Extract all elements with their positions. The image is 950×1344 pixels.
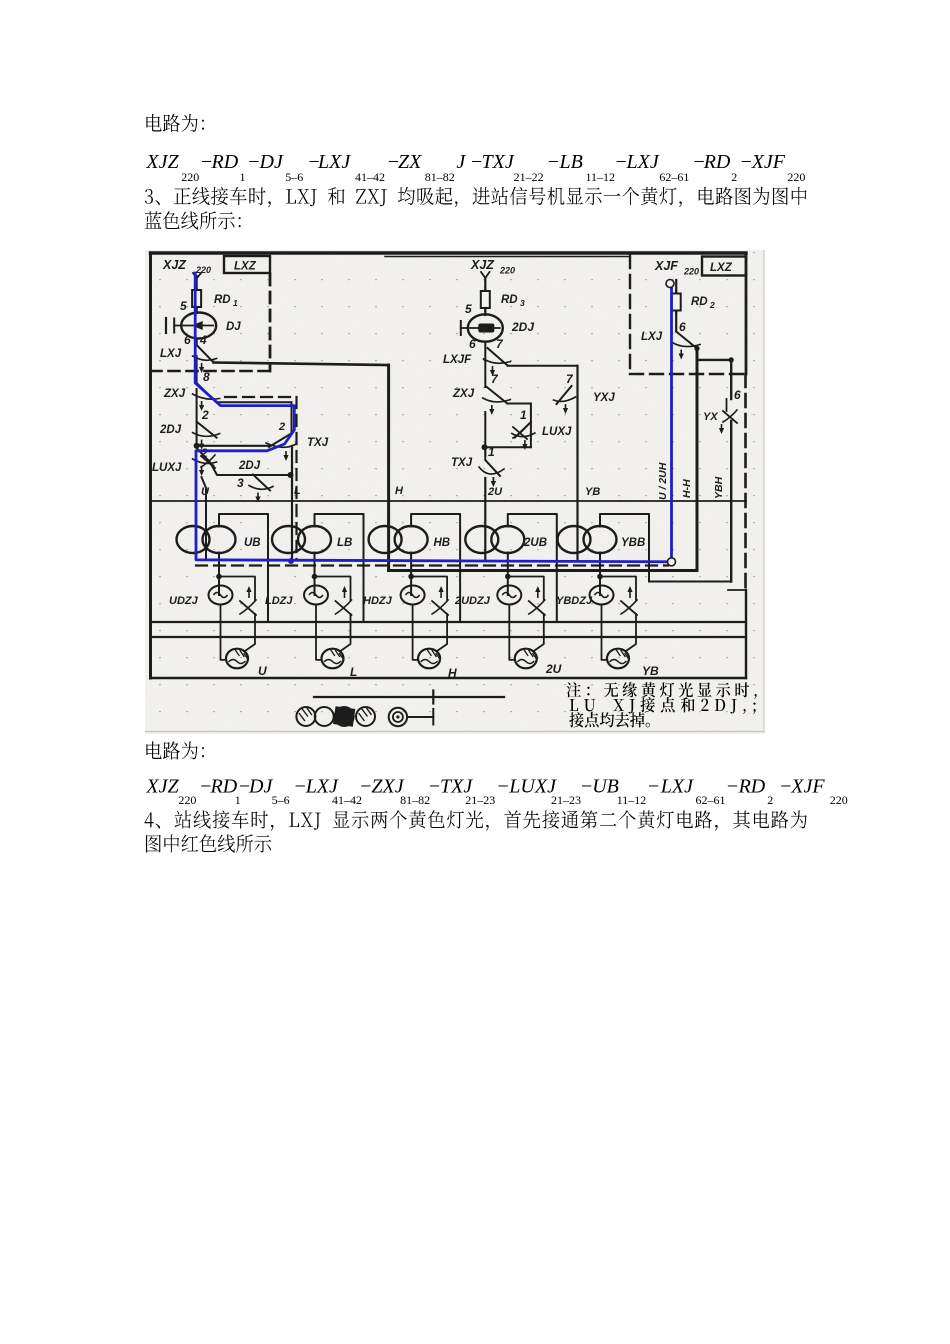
contact LDZJ (cross) [336, 601, 352, 615]
svg-text:YXJ: YXJ [593, 392, 615, 404]
svg-text:5: 5 [180, 299, 187, 313]
signal head lamps [296, 707, 315, 726]
svg-text:XJZ: XJZ [162, 258, 187, 272]
junction dot H [408, 574, 414, 580]
svg-text:2UDZJ: 2UDZJ [454, 595, 491, 607]
outer border right (solid bottom) [745, 590, 747, 678]
wire contact to lamp YB [626, 614, 636, 651]
wire HH vertical [696, 349, 699, 571]
svg-text:220: 220 [181, 170, 199, 184]
svg-text:RD: RD [211, 151, 239, 173]
body paragraph line 3 [145, 189, 153, 204]
wire DJ to LXJ [196, 339, 198, 345]
relay coil HDZJ [401, 586, 425, 605]
wire LXJF out [508, 365, 578, 367]
transformer HB [369, 526, 402, 553]
svg-text:62–61: 62–61 [696, 793, 726, 807]
svg-text:XJF: XJF [790, 776, 825, 798]
svg-text:−: − [647, 776, 661, 798]
svg-text:2U: 2U [545, 662, 562, 676]
wire LUXJ out to L junction [211, 464, 291, 475]
svg-text:1: 1 [233, 298, 238, 308]
wire coil to lamp H [413, 605, 419, 660]
wire secondary top bracket H [411, 514, 460, 622]
svg-text:5–6: 5–6 [272, 793, 290, 807]
svg-text:81–82: 81–82 [400, 793, 430, 807]
junction node mid [482, 444, 488, 450]
wire ZXJ mid out [507, 403, 531, 405]
svg-text:YBDZJ: YBDZJ [556, 595, 593, 607]
svg-text:220: 220 [830, 793, 848, 807]
wire secondary top bracket U [219, 514, 268, 622]
wire fuse to DJ [196, 307, 198, 313]
relay coil UDZJ [209, 586, 233, 605]
svg-text:81–82: 81–82 [425, 170, 455, 184]
outer border top [151, 251, 747, 254]
contact YXJ (right): stub, cross, arrow [726, 399, 728, 411]
svg-text:220: 220 [195, 265, 211, 275]
wire XJZ down to fuse [196, 276, 198, 292]
note line 2 [570, 699, 578, 711]
wire contact to lamp 2U [534, 614, 544, 651]
wire mid vertical through [484, 412, 486, 456]
body wrap line 2 [146, 835, 161, 853]
dashed box top-right left edge [629, 255, 631, 374]
svg-text:H: H [448, 666, 457, 680]
note line 1 [566, 682, 580, 697]
svg-text:21–23: 21–23 [551, 793, 581, 807]
wire LXJ to H column [214, 363, 389, 366]
tick mark left of DJ [165, 318, 167, 333]
svg-text:ZXJ: ZXJ [452, 388, 475, 400]
svg-text:HDZJ: HDZJ [363, 595, 393, 607]
wire down LUXJ branch [530, 404, 532, 448]
svg-text:LXJ: LXJ [626, 151, 660, 173]
svg-text:6: 6 [184, 333, 191, 347]
svg-text:UB: UB [592, 776, 619, 798]
wire secondary bottom L [314, 553, 316, 596]
wire contact to lamp L [341, 614, 351, 651]
svg-text:6: 6 [469, 337, 476, 351]
svg-text:8: 8 [203, 370, 210, 384]
dashed box top-left bottom edge [151, 370, 271, 373]
blue junction dot at L [288, 558, 294, 564]
wire XJF down to fuse [675, 280, 677, 295]
svg-text:TXJ: TXJ [307, 437, 329, 449]
contact 2DJ-3 on U-L wire [253, 475, 270, 491]
svg-text:LXJ: LXJ [160, 348, 182, 360]
wire to contact H [411, 577, 447, 601]
svg-text:RD: RD [501, 294, 518, 306]
wire XJZ mid down [484, 278, 486, 293]
contact LXJ (right) [676, 332, 697, 349]
svg-text:21–23: 21–23 [465, 793, 495, 807]
svg-text:2: 2 [278, 421, 285, 433]
wire fuse to 2DJ [484, 308, 486, 315]
svg-text:XJZ: XJZ [470, 258, 495, 272]
svg-text:21–22: 21–22 [514, 170, 544, 184]
contact 2DJ (left) [197, 422, 217, 438]
contact LXJF [488, 348, 508, 366]
svg-text:XJF: XJF [751, 151, 786, 173]
signal mast line [314, 696, 504, 698]
svg-text:XJZ: XJZ [145, 151, 179, 173]
wire secondary top bracket L [315, 514, 364, 622]
svg-text:41–42: 41–42 [332, 793, 362, 807]
dashed box TXJ right edge [295, 397, 297, 560]
transformer LB [272, 526, 305, 553]
wire contact to lamp U [245, 614, 255, 651]
page text 2: 电路为: [146, 741, 161, 759]
svg-text:−: − [580, 776, 594, 798]
relay coil 2UDZJ [497, 586, 521, 605]
wire below LXJ to ZXJ [196, 356, 198, 383]
svg-text:4: 4 [199, 333, 207, 347]
relay coil LDZJ [304, 586, 328, 605]
terminal circle blue bottom [668, 558, 676, 566]
svg-text:TXJ: TXJ [482, 151, 515, 173]
relay 2DJ [468, 314, 503, 341]
svg-text:11–12: 11–12 [617, 793, 647, 807]
svg-text:2DJ: 2DJ [238, 460, 261, 472]
svg-text:2: 2 [709, 300, 715, 310]
svg-text:LXJ: LXJ [641, 331, 663, 343]
junction dot 2U [505, 574, 511, 580]
connector right step [728, 589, 746, 591]
svg-text:2U: 2U [487, 486, 503, 498]
formula line 2 [145, 776, 847, 808]
wire junction horizontal [197, 445, 270, 447]
wire coil to lamp L [316, 605, 322, 660]
scanned figure background [145, 250, 765, 734]
dashed long bottom edge [196, 564, 668, 566]
svg-text:11–12: 11–12 [586, 170, 616, 184]
transformer box top [151, 500, 747, 502]
contact 2UDZJ (cross) [529, 601, 545, 615]
contact YXJ (middle, down-left) [557, 386, 572, 404]
wire LUXJ mid bottom [485, 446, 531, 448]
wire YBH vertical upper [730, 360, 732, 399]
svg-text:ZXJ: ZXJ [163, 388, 186, 400]
relay coil YBDZJ [590, 586, 614, 605]
lamp YB [607, 649, 629, 669]
svg-text:2UB: 2UB [523, 537, 547, 549]
transformer box bottom [151, 621, 747, 623]
svg-text:5: 5 [465, 302, 472, 316]
wire secondary top bracket YB [600, 514, 649, 582]
lamp box bottom [151, 677, 747, 679]
wire secondary bottom 2U [507, 553, 509, 596]
wire L column [291, 446, 293, 560]
relay DJ [181, 313, 216, 339]
svg-text:H: H [395, 485, 404, 497]
wire coil to lamp YB [602, 605, 608, 660]
fuse RD2 [675, 291, 677, 314]
wire H column down [387, 365, 390, 571]
svg-text:J: J [456, 151, 466, 173]
svg-text:2: 2 [201, 408, 209, 422]
svg-text:LXZ: LXZ [710, 262, 733, 274]
svg-text:2DJ: 2DJ [511, 320, 534, 334]
outer border top double (middle) [385, 256, 630, 258]
wire to contact 2U [508, 577, 544, 601]
svg-text:LUXJ: LUXJ [542, 426, 572, 438]
junction dot branch [729, 357, 734, 362]
svg-text:RD: RD [703, 151, 731, 173]
svg-text:LUXJ: LUXJ [152, 462, 182, 474]
transformer 2UB [465, 526, 498, 553]
transformer YBB [558, 526, 591, 553]
svg-text:YB: YB [642, 664, 659, 678]
contact UDZJ (cross) [240, 601, 256, 615]
svg-text:220: 220 [178, 793, 196, 807]
svg-text:−: − [726, 776, 740, 798]
svg-text:YBB: YBB [621, 537, 645, 549]
wire ZXJ pivot down to junction [196, 389, 198, 446]
junction node [194, 443, 200, 449]
svg-text:ZX: ZX [398, 151, 422, 173]
svg-text:LXJ: LXJ [660, 776, 694, 798]
junction dot LXJ blade [694, 346, 699, 351]
note line 3 [569, 712, 583, 727]
svg-text:TXJ: TXJ [451, 457, 473, 469]
junction dot YB [597, 574, 603, 580]
svg-text:2DJ: 2DJ [159, 424, 182, 436]
lamp box top [151, 636, 747, 638]
wire down to TXJ [291, 402, 293, 433]
junction dot L [312, 574, 318, 580]
contact HDZJ (cross) [432, 601, 448, 615]
svg-text:62–61: 62–61 [659, 170, 689, 184]
LXZ box (left) [224, 256, 270, 273]
svg-text:220: 220 [499, 266, 515, 276]
wire fuse to LXJ [675, 311, 677, 332]
svg-text:1: 1 [240, 170, 246, 184]
lamp U [226, 649, 248, 669]
contact LXJ (left) [197, 345, 214, 363]
wire to contact L [315, 577, 351, 601]
svg-text:DJ: DJ [248, 776, 273, 798]
outer border left [149, 253, 152, 678]
contact TXJ (middle): stub, cross, arrow [484, 447, 486, 459]
svg-text:1: 1 [520, 408, 527, 422]
dashed box top-right bottom edge [630, 373, 745, 375]
svg-text:2: 2 [767, 793, 773, 807]
svg-text:RD: RD [214, 294, 231, 306]
wire ZXJ out [217, 401, 292, 403]
svg-text:RD: RD [691, 296, 708, 308]
contact ZXJ (left) [197, 383, 217, 403]
signal target symbol [389, 708, 407, 726]
wire YBH vertical lower [730, 421, 732, 582]
svg-text:UB: UB [244, 537, 261, 549]
svg-text:3: 3 [237, 476, 244, 490]
wire secondary bottom YB [599, 553, 601, 596]
terminal circle XJF top [666, 280, 674, 288]
svg-text:U: U [258, 664, 267, 678]
formula line 1 [145, 151, 805, 184]
transformer UB [177, 526, 210, 553]
svg-text:LB: LB [559, 151, 583, 173]
wire secondary bottom U [218, 553, 220, 596]
svg-text:L: L [294, 485, 301, 497]
svg-text:6: 6 [734, 388, 741, 402]
page text: 电路为： [146, 114, 161, 132]
wire to contact YB [600, 577, 636, 601]
junction dot U [216, 574, 222, 580]
svg-text:H-H: H-H [681, 479, 693, 498]
terminal tick XJZ middle [481, 272, 490, 278]
svg-text:−: − [247, 151, 261, 173]
body paragraph line 4 [145, 812, 154, 827]
svg-text:DJ: DJ [259, 151, 284, 173]
svg-text:RD: RD [738, 776, 766, 798]
svg-text:RD: RD [210, 776, 238, 798]
svg-text:220: 220 [683, 267, 699, 277]
svg-text:U / 2UH: U / 2UH [657, 462, 669, 500]
wire 2U feed [484, 478, 486, 561]
svg-text:XJZ: XJZ [145, 776, 179, 798]
svg-text:YBH: YBH [713, 476, 725, 499]
contact LUXJ (middle, down-left) with cross [515, 422, 531, 438]
lamp H [418, 649, 440, 669]
svg-text:DJ: DJ [226, 321, 241, 333]
wire U feed [202, 477, 207, 559]
wire contact to lamp H [437, 614, 447, 651]
wire coil to lamp 2U [509, 605, 515, 660]
svg-text:UDZJ: UDZJ [169, 595, 199, 607]
wire HH horizontal thick [389, 569, 697, 572]
contact TXJ (left, down-left blade) [269, 433, 292, 447]
lamp 2U [515, 649, 537, 669]
svg-text:41–42: 41–42 [355, 170, 385, 184]
junction node L [288, 472, 294, 478]
svg-text:HB: HB [434, 537, 451, 549]
outer border right (dashed mid) [744, 374, 747, 590]
wire coil to lamp U [221, 605, 227, 660]
svg-text:LXJF: LXJF [443, 354, 472, 366]
dashed box TXJ top edge [225, 396, 294, 398]
svg-text:−: − [547, 151, 561, 173]
svg-text:5–6: 5–6 [285, 170, 303, 184]
fuse RD1 [196, 287, 198, 310]
svg-text:−: − [496, 776, 510, 798]
svg-text:U: U [201, 486, 210, 498]
svg-text:YX: YX [703, 411, 718, 423]
svg-text:LXJ: LXJ [317, 151, 351, 173]
wire YBH bottom horizontal [649, 581, 731, 583]
svg-text:3: 3 [520, 298, 525, 308]
svg-text:XJF: XJF [654, 259, 678, 273]
svg-text:YB: YB [585, 486, 600, 498]
wire secondary top bracket 2U [508, 514, 557, 622]
outer border right (solid top) [745, 253, 748, 374]
body wrap line [145, 211, 162, 228]
contact YBDZJ (cross) [621, 601, 637, 615]
wire YB column down [576, 366, 578, 561]
contact LUXJ (left) with cross [197, 448, 214, 466]
svg-text:2: 2 [731, 170, 737, 184]
LXZ box (right) [702, 257, 746, 276]
svg-text:LXZ: LXZ [234, 261, 257, 273]
svg-text:LDZJ: LDZJ [265, 595, 293, 607]
svg-text:L: L [350, 665, 357, 679]
wire branch to YBH [697, 359, 731, 361]
svg-text:6: 6 [679, 320, 686, 334]
svg-text:1: 1 [488, 445, 495, 459]
svg-text:LB: LB [337, 537, 352, 549]
terminal tick XJZ left [193, 273, 201, 278]
wire secondary bottom H [410, 553, 412, 596]
svg-text:220: 220 [787, 170, 805, 184]
wire 2DJ to LXJF [484, 342, 486, 387]
dashed box top-left right edge [269, 274, 272, 371]
wire to contact U [219, 577, 255, 601]
contact ZXJ (middle) [487, 387, 508, 404]
blue circuit path (main) [195, 273, 671, 562]
svg-text:LUXJ: LUXJ [508, 776, 557, 798]
fuse RD3 [484, 288, 486, 311]
lamp L [322, 649, 344, 669]
